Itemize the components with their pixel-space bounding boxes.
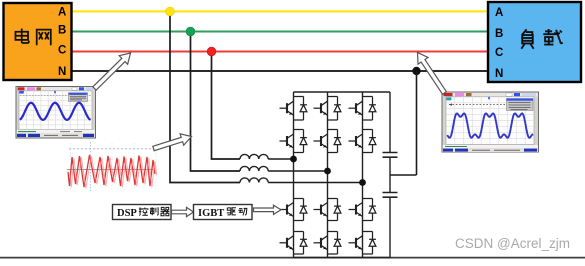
wire: bridge leg 2 vertical: [327, 92, 329, 258]
block arrow: scope 2 pointing to phase C line: [412, 49, 449, 96]
node: bridge leg 1 AC midpoint: [290, 156, 297, 163]
wire: bridge leg 3 vertical: [362, 92, 364, 258]
block arrow: harmonic plot pointing to tap wires: [152, 131, 194, 154]
wire: L1 output to bridge leg 1 midpoint: [268, 158, 293, 160]
IGBT Q6 with antiparallel diode D6 (leg 3, row 2): [349, 130, 376, 153]
svg-text:C: C: [58, 45, 66, 57]
svg-text:N: N: [58, 66, 66, 78]
wire: neutral N line (black): [72, 70, 489, 72]
IGBT Q8 with antiparallel diode D8 (leg 2, row 3): [314, 199, 341, 221]
IGBT Q2 with antiparallel diode D2 (leg 2, row 1): [314, 97, 341, 121]
IGBT Q12 with antiparallel diode D12 (leg 3, row 4): [349, 232, 376, 255]
block arrow: DSP to IGBT driver: [172, 207, 194, 216]
svg-text:B: B: [58, 25, 66, 37]
IGBT Q11 with antiparallel diode D11 (leg 2, row 4): [314, 232, 341, 255]
capacitor C2 (lower DC link): [383, 193, 398, 198]
wire: phase A tap drop to filter inductor L3: [170, 11, 240, 182]
svg-text:IGBT: IGBT: [198, 208, 224, 219]
node: phase A tap (yellow dot): [166, 7, 175, 16]
wire: bottom DC bus / border line: [0, 257, 585, 259]
svg-text:A: A: [58, 7, 66, 19]
IGBT driver box IGBT驱动: [194, 205, 253, 220]
wire: phase B tap drop to filter inductor L2: [191, 32, 241, 172]
wire: bridge bottom DC rail: [294, 257, 391, 259]
IGBT Q4 with antiparallel diode D4 (leg 1, row 2): [280, 130, 307, 153]
svg-text:B: B: [495, 28, 503, 40]
IGBT Q9 with antiparallel diode D9 (leg 3, row 3): [349, 199, 376, 221]
wire: phase C tap drop to filter inductor L1: [212, 52, 241, 160]
capacitor C1 (upper DC link): [383, 153, 398, 158]
IGBT Q7 with antiparallel diode D7 (leg 1, row 3): [280, 199, 307, 221]
wire: L2 output to bridge leg 2 midpoint: [268, 170, 327, 172]
harmonic current waveform plot (red spikes): [67, 142, 157, 191]
IGBT Q1 with antiparallel diode D1 (leg 1, row 1): [280, 97, 307, 121]
inductor L1 (phase C filter): [240, 154, 268, 159]
wire: phase A line (yellow): [72, 10, 489, 12]
node: neutral tap (black dot): [412, 67, 420, 75]
IGBT Q5 with antiparallel diode D5 (leg 2, row 2): [314, 130, 341, 153]
oscilloscope 2: compensated/distorted load current waveform: [442, 92, 539, 152]
svg-text:A: A: [495, 7, 503, 19]
node: bridge leg 2 AC midpoint: [324, 168, 331, 175]
wire: bridge top DC rail: [294, 91, 391, 93]
wire: L3 output to bridge leg 3 midpoint: [268, 182, 362, 184]
inductor L3 (phase A filter): [240, 178, 268, 183]
DSP controller box DSP控制器: [113, 205, 172, 220]
IGBT Q10 with antiparallel diode D10 (leg 1, row 4): [280, 232, 307, 255]
wire: bridge leg 1 vertical: [293, 92, 295, 258]
svg-text:CSDN @Acrel_zjm: CSDN @Acrel_zjm: [455, 236, 570, 251]
wire: phase C line (red): [72, 50, 489, 52]
wire: phase B line (green): [72, 30, 489, 32]
block arrow: scope 1 pointing to phase C line: [90, 49, 134, 93]
source box 电网 (power grid): [4, 3, 72, 80]
node: bridge leg 3 AC midpoint: [359, 179, 366, 186]
oscilloscope 1: grid-side sinusoidal voltage waveform: [16, 87, 96, 139]
wire: DC link midpoint to neutral: [390, 71, 417, 175]
IGBT Q3 with antiparallel diode D3 (leg 3, row 1): [349, 97, 376, 121]
svg-text:N: N: [495, 68, 503, 80]
svg-text:DSP: DSP: [117, 208, 137, 219]
inductor L2 (phase B filter): [240, 166, 268, 171]
node: phase B tap (green dot): [186, 27, 195, 36]
block arrow: IGBT driver to bridge gates: [254, 205, 282, 214]
svg-text:C: C: [495, 47, 503, 59]
node: phase C tap (red dot): [207, 47, 216, 56]
load box 负载: [488, 2, 581, 82]
wire: DC link right rail: [389, 92, 391, 258]
